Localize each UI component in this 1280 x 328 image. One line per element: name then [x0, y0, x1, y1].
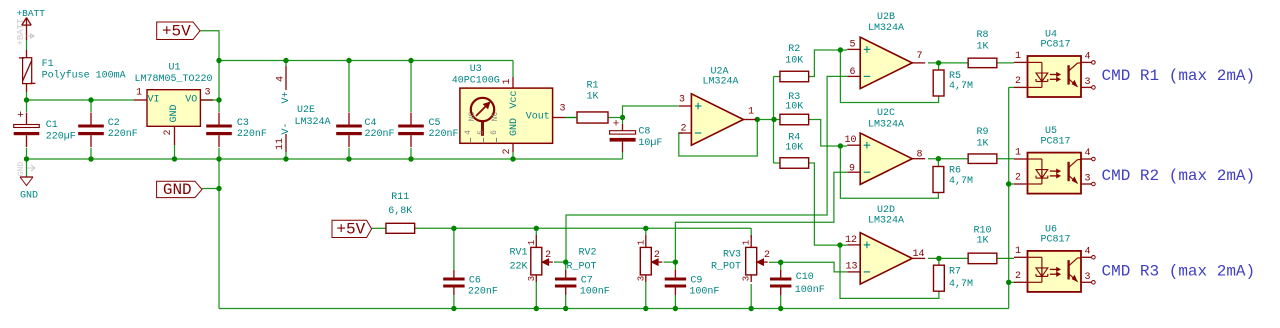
svg-text:2: 2	[1015, 76, 1021, 87]
svg-text:C7: C7	[581, 276, 593, 287]
svg-text:C5: C5	[429, 118, 441, 129]
svg-text:PC817: PC817	[1040, 136, 1070, 147]
svg-text:+5V: +5V	[336, 220, 365, 238]
svg-text:R11: R11	[391, 192, 409, 203]
svg-text:NC: NC	[491, 112, 500, 122]
svg-text:R6: R6	[949, 166, 961, 177]
svg-text:PC817: PC817	[1040, 235, 1070, 246]
svg-text:C10: C10	[796, 272, 814, 283]
svg-text:4: 4	[1084, 148, 1090, 159]
svg-text:100nF: 100nF	[795, 285, 825, 296]
svg-text:4: 4	[1084, 246, 1090, 257]
svg-text:C9: C9	[690, 276, 702, 287]
svg-text:6,8K: 6,8K	[388, 206, 412, 217]
svg-text:11: 11	[275, 138, 286, 150]
svg-text:RV1: RV1	[509, 247, 527, 258]
svg-text:3: 3	[679, 95, 685, 106]
svg-text:C8: C8	[638, 127, 650, 138]
svg-text:U2D: U2D	[877, 205, 895, 216]
svg-text:9: 9	[849, 164, 855, 175]
svg-text:U1: U1	[168, 63, 180, 74]
svg-text:Vcc: Vcc	[509, 90, 520, 108]
svg-text:CMD R2 (max 2mA): CMD R2 (max 2mA)	[1102, 167, 1256, 185]
svg-text:LM324A: LM324A	[868, 23, 904, 34]
svg-text:2: 2	[1015, 271, 1021, 282]
svg-text:6: 6	[490, 130, 499, 135]
svg-text:10K: 10K	[785, 56, 803, 67]
svg-text:1: 1	[136, 88, 142, 99]
svg-text:U2C: U2C	[877, 108, 895, 119]
svg-text:220nF: 220nF	[365, 129, 395, 140]
svg-text:220µF: 220µF	[46, 132, 76, 143]
svg-text:2: 2	[502, 148, 513, 154]
svg-text:R_POT: R_POT	[566, 262, 596, 273]
svg-text:7: 7	[916, 51, 922, 62]
svg-text:F1: F1	[42, 59, 54, 70]
svg-text:1K: 1K	[586, 92, 598, 103]
svg-text:1: 1	[502, 78, 513, 84]
svg-text:CMD R1 (max 2mA): CMD R1 (max 2mA)	[1102, 67, 1256, 85]
svg-text:220nF: 220nF	[237, 129, 267, 140]
svg-text:1: 1	[1015, 51, 1021, 62]
svg-text:3: 3	[204, 88, 210, 99]
svg-text:14: 14	[912, 249, 924, 260]
svg-text:LM324A: LM324A	[868, 120, 904, 131]
svg-text:22K: 22K	[509, 262, 527, 273]
svg-text:C4: C4	[365, 118, 377, 129]
svg-text:RV3: RV3	[723, 250, 741, 261]
svg-text:3: 3	[527, 276, 537, 281]
svg-text:LM324A: LM324A	[294, 117, 330, 128]
svg-text:R1: R1	[586, 81, 598, 92]
svg-text:LM78M05_TO220: LM78M05_TO220	[134, 74, 212, 85]
svg-text:1K: 1K	[976, 235, 988, 246]
svg-text:VO: VO	[185, 95, 197, 106]
svg-text:C6: C6	[469, 276, 481, 287]
svg-text:2: 2	[545, 250, 551, 261]
svg-text:220nF: 220nF	[108, 129, 138, 140]
svg-text:U3: U3	[470, 64, 482, 75]
svg-text:10: 10	[844, 135, 856, 146]
svg-text:U2B: U2B	[877, 12, 895, 23]
svg-text:GND: GND	[17, 162, 26, 177]
svg-text:PC817: PC817	[1040, 40, 1070, 51]
svg-text:6: 6	[849, 67, 855, 78]
svg-text:1: 1	[1015, 246, 1021, 257]
svg-text:8: 8	[916, 150, 922, 161]
svg-text:C2: C2	[108, 118, 120, 129]
svg-text:+: +	[613, 119, 620, 131]
svg-text:R8: R8	[976, 30, 988, 41]
svg-text:+BATT: +BATT	[16, 18, 26, 46]
svg-text:2: 2	[680, 124, 686, 135]
svg-text:10µF: 10µF	[638, 138, 662, 149]
svg-text:2: 2	[163, 129, 174, 135]
svg-text:Vout: Vout	[526, 112, 550, 123]
svg-text:GND: GND	[163, 181, 192, 199]
svg-text:5: 5	[849, 40, 855, 51]
svg-text:1: 1	[742, 240, 752, 245]
svg-text:220nF: 220nF	[429, 129, 459, 140]
svg-text:R_POT: R_POT	[711, 262, 741, 273]
svg-text:GND: GND	[20, 190, 38, 201]
svg-text:13: 13	[845, 262, 857, 273]
svg-text:CMD R3 (max 2mA): CMD R3 (max 2mA)	[1102, 262, 1256, 280]
svg-text:1: 1	[1015, 148, 1021, 159]
svg-text:4,7M: 4,7M	[949, 176, 973, 187]
svg-text:2: 2	[764, 250, 770, 261]
svg-text:1K: 1K	[976, 41, 988, 52]
svg-text:3: 3	[559, 104, 565, 115]
svg-text:5: 5	[477, 130, 486, 135]
svg-text:R2: R2	[788, 44, 800, 55]
svg-text:100nF: 100nF	[580, 286, 610, 297]
svg-text:4,7M: 4,7M	[949, 81, 973, 92]
svg-text:U2E: U2E	[297, 105, 315, 116]
svg-text:VI: VI	[147, 95, 159, 106]
svg-text:1K: 1K	[976, 139, 988, 150]
svg-text:+BATT: +BATT	[16, 8, 45, 19]
svg-text:GND: GND	[509, 118, 520, 136]
svg-text:R7: R7	[949, 267, 961, 278]
svg-text:4: 4	[1084, 51, 1090, 62]
svg-text:LM324A: LM324A	[868, 216, 904, 227]
svg-text:+5V: +5V	[162, 22, 191, 40]
svg-text:GND: GND	[169, 104, 180, 122]
svg-text:Polyfuse 100mA: Polyfuse 100mA	[42, 69, 126, 81]
svg-text:V+: V+	[281, 91, 292, 103]
svg-text:2: 2	[654, 250, 660, 261]
svg-text:220nF: 220nF	[468, 286, 498, 297]
svg-text:10K: 10K	[785, 102, 803, 113]
svg-text:3: 3	[1084, 272, 1090, 283]
svg-text:3: 3	[1084, 174, 1090, 185]
svg-text:R9: R9	[976, 127, 988, 138]
svg-text:3: 3	[636, 276, 646, 281]
svg-text:12: 12	[845, 235, 857, 246]
svg-text:4: 4	[276, 76, 287, 82]
svg-text:40PC100G: 40PC100G	[452, 76, 500, 87]
svg-text:2: 2	[1015, 173, 1021, 184]
svg-text:NC: NC	[468, 112, 477, 122]
svg-text:+: +	[17, 110, 24, 122]
svg-text:RV2: RV2	[578, 247, 596, 258]
svg-text:1: 1	[748, 107, 754, 118]
svg-text:3: 3	[742, 276, 752, 281]
svg-text:1: 1	[636, 240, 646, 245]
svg-text:LM324A: LM324A	[702, 77, 738, 88]
svg-text:4: 4	[464, 130, 473, 135]
svg-text:C3: C3	[237, 118, 249, 129]
svg-text:4,7M: 4,7M	[949, 279, 973, 290]
svg-text:10K: 10K	[785, 143, 803, 154]
svg-text:100nF: 100nF	[689, 286, 719, 297]
svg-text:3: 3	[1084, 77, 1090, 88]
svg-text:V-: V-	[281, 122, 292, 134]
svg-text:C1: C1	[46, 120, 58, 131]
svg-text:1: 1	[527, 240, 537, 245]
